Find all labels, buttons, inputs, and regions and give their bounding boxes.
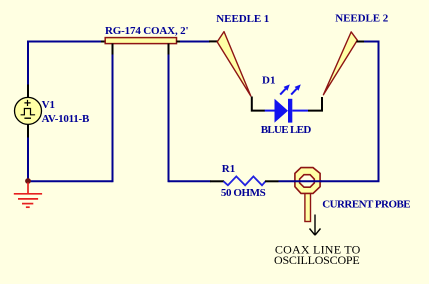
svg-text:NEEDLE 1: NEEDLE 1 (216, 13, 269, 25)
wire top-left from V1 to coax (28, 42, 102, 86)
junction node (25, 178, 31, 184)
pin coax shield right (168, 44, 170, 56)
probe output arrow (310, 215, 321, 236)
svg-text:BLUE LED: BLUE LED (261, 124, 312, 136)
svg-text:R1: R1 (222, 163, 235, 175)
wire needle 2 to probe (321, 42, 379, 182)
wire V1 to ground junction (27, 138, 29, 182)
needle 2 (323, 32, 357, 95)
needle 1 (217, 32, 251, 96)
current probe hole (octagon) (300, 175, 315, 188)
pin coax left (101, 41, 106, 43)
pin needle 1 (209, 40, 219, 42)
wire coax shield right tap to resistor (169, 180, 211, 182)
svg-text:V1: V1 (42, 99, 55, 111)
emission arrow 1 (280, 89, 285, 95)
wire across probe (294, 180, 322, 182)
wire bottom-left to coax left tap (28, 180, 113, 182)
pin coax shield left (112, 44, 114, 56)
svg-text:NEEDLE 2: NEEDLE 2 (335, 12, 389, 24)
wire resistor to probe (279, 180, 297, 182)
svg-text:OSCILLOSCOPE: OSCILLOSCOPE (274, 253, 360, 267)
svg-text:CURRENT PROBE: CURRENT PROBE (322, 199, 410, 211)
current probe tail (305, 192, 311, 222)
wire needle 1 tip to LED (252, 97, 265, 111)
resistor R1 (210, 176, 279, 185)
pin V1 top (27, 85, 29, 99)
svg-text:AV-1011-B: AV-1011-B (42, 113, 90, 125)
svg-text:D1: D1 (262, 75, 275, 87)
current probe ring (octagon) (295, 168, 320, 194)
svg-text:50 OHMS: 50 OHMS (221, 187, 266, 199)
svg-text:RG-174 COAX, 2': RG-174 COAX, 2' (105, 25, 189, 37)
pin coax right (177, 41, 182, 43)
LED D1 (265, 84, 308, 122)
wire coax right to needle 1 (180, 41, 210, 43)
wire coax shield left down (112, 55, 114, 183)
coax T1 body (105, 38, 176, 44)
wire LED to needle 2 tip (308, 97, 322, 111)
voltage source V1 (15, 97, 42, 124)
pin needle 2 (357, 41, 365, 43)
wire coax shield right down (168, 55, 170, 183)
ground (14, 183, 42, 208)
emission arrow 2 (291, 89, 296, 95)
pin V1 bottom (27, 125, 29, 139)
